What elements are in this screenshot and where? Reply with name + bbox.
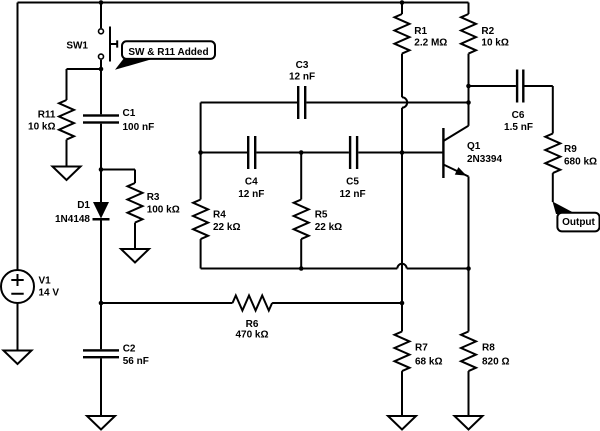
label Q1 2N3394 bbox=[467, 141, 502, 165]
label R8 820 Ohm bbox=[482, 343, 509, 368]
wire R7 to ground bbox=[401, 371, 403, 416]
node R6 branch bbox=[99, 301, 104, 306]
wire R8 to ground bbox=[468, 371, 470, 416]
voltage source V1 bbox=[1, 270, 34, 303]
wire R5 bottom lead bbox=[300, 239, 302, 268]
wire C1 to D1 bbox=[100, 124, 102, 202]
svg-text:22 kΩ: 22 kΩ bbox=[213, 222, 240, 233]
wire R2 top lead bbox=[468, 3, 470, 15]
wire to R11 bbox=[67, 69, 102, 100]
svg-text:2N3394: 2N3394 bbox=[467, 154, 502, 165]
label V1 14 V bbox=[39, 276, 60, 299]
label C4 12 nF bbox=[238, 177, 264, 201]
svg-text:14 V: 14 V bbox=[39, 288, 60, 299]
svg-text:R7: R7 bbox=[415, 343, 428, 354]
svg-text:10 kΩ: 10 kΩ bbox=[28, 121, 55, 132]
wire R5 top lead bbox=[300, 153, 302, 200]
wire mid rail to C4 bbox=[201, 152, 247, 154]
svg-text:12 nF: 12 nF bbox=[339, 189, 365, 200]
label R5 22 kOhm bbox=[315, 209, 342, 233]
node ladder left / mid rail bbox=[198, 150, 203, 155]
svg-text:R9: R9 bbox=[564, 144, 577, 155]
wire hop (R1 line over top rail) bbox=[402, 97, 407, 107]
svg-text:820 Ω: 820 Ω bbox=[482, 356, 509, 367]
node bottom rail R5 bbox=[299, 266, 304, 271]
svg-text:R8: R8 bbox=[482, 343, 495, 354]
svg-text:C5: C5 bbox=[346, 177, 359, 188]
capacitor C2 bbox=[83, 349, 119, 358]
transistor Q1 bbox=[442, 126, 468, 178]
svg-text:R3: R3 bbox=[147, 192, 160, 203]
resistor R5 bbox=[294, 200, 309, 240]
label R7 68 kOhm bbox=[415, 343, 442, 368]
resistor R1 bbox=[395, 14, 410, 54]
node C1/R3 branch bbox=[99, 167, 104, 172]
wire top rail bbox=[18, 2, 469, 4]
ground (C2) bbox=[87, 416, 115, 430]
callout Output bbox=[553, 202, 600, 232]
svg-text:D1: D1 bbox=[77, 200, 90, 211]
label R2 10 kOhm bbox=[481, 26, 508, 49]
label R1 2.2 MOhm bbox=[414, 26, 447, 49]
wire R4 bottom lead bbox=[200, 239, 202, 268]
node emitter rail bbox=[466, 266, 471, 271]
svg-text:1N4148: 1N4148 bbox=[55, 214, 90, 225]
node collector / ladder rail bbox=[466, 100, 471, 105]
wire D1 to C2 bbox=[100, 221, 102, 350]
wire switch stub bbox=[100, 3, 102, 29]
wire left rail bbox=[17, 3, 19, 271]
label C3 12 nF bbox=[289, 60, 315, 82]
svg-text:680 kΩ: 680 kΩ bbox=[564, 156, 597, 167]
ground (R7) bbox=[388, 416, 416, 430]
wire R2 to collector bbox=[468, 54, 470, 126]
capacitor C1 bbox=[83, 114, 119, 123]
label R4 22 kOhm bbox=[213, 209, 240, 233]
resistor R2 bbox=[461, 14, 476, 54]
svg-text:C3: C3 bbox=[296, 60, 309, 71]
svg-text:V1: V1 bbox=[39, 276, 52, 287]
capacitor C6 bbox=[516, 70, 525, 103]
node below SW1 bbox=[99, 67, 104, 72]
svg-text:R4: R4 bbox=[213, 209, 226, 220]
svg-text:12 nF: 12 nF bbox=[238, 189, 264, 200]
resistor R8 bbox=[461, 332, 476, 372]
svg-text:R5: R5 bbox=[315, 209, 328, 220]
wire R1 top lead bbox=[401, 3, 403, 15]
wire to R6 bbox=[101, 302, 233, 304]
node top rail R1 bbox=[400, 0, 405, 5]
wire C2 to ground bbox=[100, 358, 102, 416]
ground (R11) bbox=[53, 167, 81, 181]
wire R9 to output bbox=[552, 173, 554, 202]
svg-text:56 nF: 56 nF bbox=[123, 356, 149, 367]
capacitor C5 bbox=[349, 136, 358, 169]
wire collector up bbox=[468, 103, 470, 126]
label D1 1N4148 bbox=[55, 200, 90, 225]
svg-text:R11: R11 bbox=[38, 109, 56, 120]
svg-text:2.2 MΩ: 2.2 MΩ bbox=[414, 38, 447, 49]
node mid rail R5 bbox=[299, 150, 304, 155]
svg-text:68 kΩ: 68 kΩ bbox=[415, 356, 442, 367]
wire ladder bottom rail left bbox=[201, 268, 398, 270]
wire emitter down bbox=[468, 177, 470, 269]
svg-text:Output: Output bbox=[562, 217, 595, 228]
switch SW1 bbox=[99, 27, 118, 62]
resistor R4 bbox=[193, 200, 208, 240]
svg-text:1.5 nF: 1.5 nF bbox=[504, 122, 533, 133]
label R3 100 kOhm bbox=[147, 192, 180, 216]
label R11 10 kOhm bbox=[28, 109, 56, 132]
node R6/R7 bbox=[400, 301, 405, 306]
wire SW1 to C1 bbox=[100, 60, 102, 115]
wire R1 line to R7 bbox=[401, 108, 403, 332]
svg-text:R1: R1 bbox=[414, 26, 427, 37]
svg-text:Q1: Q1 bbox=[467, 141, 481, 152]
callout SW & R11 Added bbox=[115, 41, 215, 70]
ground (V1) bbox=[4, 351, 32, 365]
ground (R3) bbox=[121, 249, 149, 263]
node C6 branch bbox=[466, 84, 471, 89]
wire ladder top rail left bbox=[201, 102, 297, 104]
label C5 12 nF bbox=[339, 177, 365, 201]
wire R6 to R1 line bbox=[272, 302, 402, 304]
capacitor C3 bbox=[297, 86, 306, 119]
wire to R3 bbox=[101, 170, 135, 184]
svg-text:C4: C4 bbox=[245, 177, 258, 188]
svg-text:470 kΩ: 470 kΩ bbox=[235, 330, 268, 341]
svg-text:100 kΩ: 100 kΩ bbox=[147, 205, 180, 216]
svg-text:100 nF: 100 nF bbox=[123, 122, 155, 133]
label C2 56 nF bbox=[123, 344, 149, 368]
resistor R3 bbox=[128, 183, 143, 223]
svg-text:C2: C2 bbox=[123, 344, 136, 355]
wire R4 top lead bbox=[200, 153, 202, 200]
label C6 1.5 nF bbox=[504, 110, 533, 133]
svg-text:SW1: SW1 bbox=[66, 40, 88, 51]
svg-text:12 nF: 12 nF bbox=[289, 71, 315, 82]
label R9 680 kOhm bbox=[564, 144, 597, 167]
ground (R8) bbox=[455, 416, 483, 430]
resistor R6 bbox=[233, 296, 273, 311]
svg-text:R6: R6 bbox=[246, 319, 259, 330]
svg-text:22 kΩ: 22 kΩ bbox=[315, 222, 342, 233]
capacitor C4 bbox=[247, 136, 256, 169]
wire C6 branch bbox=[469, 85, 516, 87]
diode D1 bbox=[93, 202, 110, 221]
resistor R9 bbox=[545, 134, 560, 174]
wire ladder top rail right bbox=[306, 102, 468, 104]
svg-text:10 kΩ: 10 kΩ bbox=[481, 38, 508, 49]
wire ladder left rail bbox=[200, 103, 202, 153]
resistor R7 bbox=[395, 332, 410, 372]
wire R1 lead down bbox=[401, 54, 403, 98]
wire mid rail C4 to C5 bbox=[256, 152, 349, 154]
wire hop (bottom rail over R1 line) bbox=[397, 264, 406, 269]
svg-text:C1: C1 bbox=[123, 108, 136, 119]
label C1 100 nF bbox=[123, 108, 155, 133]
wire R3 to ground bbox=[134, 223, 136, 249]
label R6 470 kOhm bbox=[235, 319, 268, 341]
svg-text:C6: C6 bbox=[512, 110, 525, 121]
wire ladder bottom rail right bbox=[407, 268, 469, 270]
svg-text:SW & R11 Added: SW & R11 Added bbox=[128, 47, 208, 58]
svg-text:R2: R2 bbox=[481, 26, 494, 37]
wire mid rail C5 to base bbox=[358, 152, 443, 154]
wire V1 to ground bbox=[17, 303, 19, 351]
wire R11 to ground bbox=[66, 140, 68, 167]
wire R8 top lead bbox=[468, 269, 470, 332]
wire C6 to R9 bbox=[525, 86, 553, 134]
resistor R11 bbox=[59, 100, 74, 140]
node (top rail / SW1) bbox=[99, 0, 104, 5]
node base bbox=[400, 150, 405, 155]
